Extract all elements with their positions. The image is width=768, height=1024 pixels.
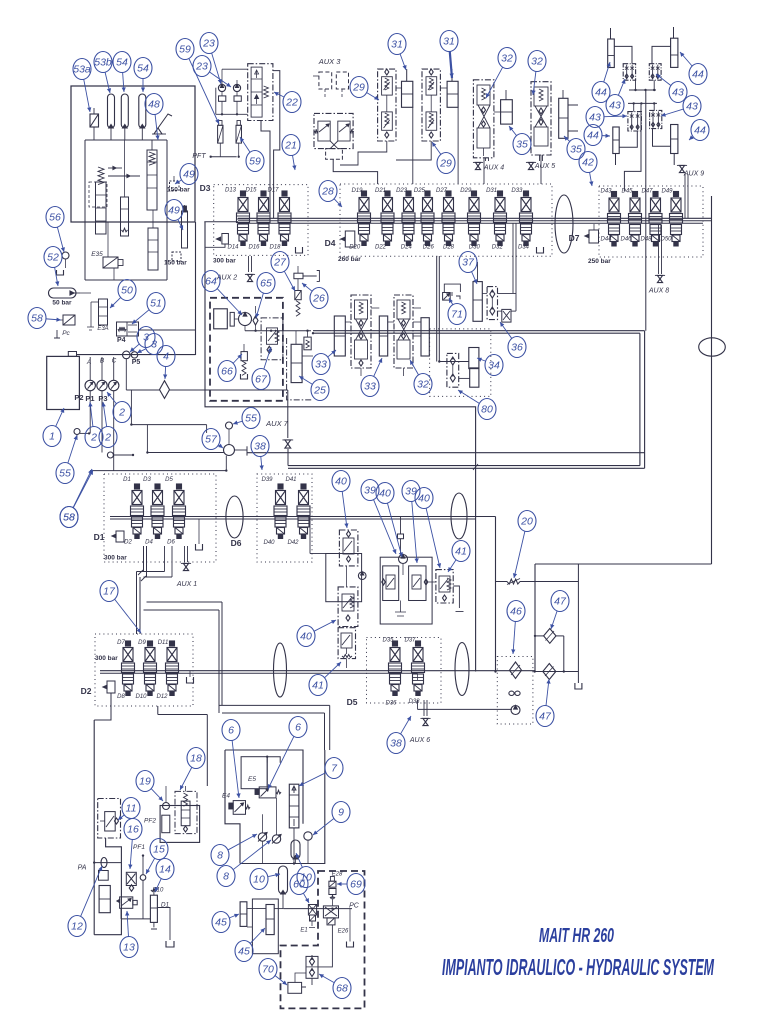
cooler sym 46 bbox=[509, 691, 514, 695]
cylinder PF2 bbox=[162, 815, 170, 833]
svg-text:44: 44 bbox=[587, 130, 599, 142]
svg-text:D27: D27 bbox=[436, 188, 448, 194]
svg-text:44: 44 bbox=[595, 87, 607, 99]
svg-text:D1: D1 bbox=[123, 477, 131, 483]
svg-text:D28: D28 bbox=[443, 245, 455, 251]
hook E45 bbox=[267, 757, 280, 763]
cylinder 35b bbox=[559, 98, 568, 138]
callout 23 bbox=[212, 53, 221, 84]
vert pair D4 to 80 bbox=[436, 256, 438, 362]
module 40 top box bbox=[339, 530, 358, 566]
svg-text:59: 59 bbox=[179, 44, 191, 56]
svg-text:300 bar: 300 bar bbox=[213, 258, 236, 265]
svg-text:AUX 9: AUX 9 bbox=[683, 171, 704, 178]
callout 26 bbox=[302, 283, 312, 291]
rect 70 bbox=[288, 982, 302, 993]
svg-text:6: 6 bbox=[295, 722, 301, 734]
box PF2 frame bbox=[160, 806, 200, 843]
module 41 box bbox=[436, 570, 453, 603]
svg-text:D5: D5 bbox=[347, 697, 358, 707]
callout 27 bbox=[284, 271, 295, 291]
ellipse node r2right bbox=[451, 493, 467, 539]
svg-text:51: 51 bbox=[150, 298, 162, 310]
svg-text:40: 40 bbox=[335, 476, 347, 488]
callout 35 bbox=[564, 136, 570, 141]
svg-text:D44: D44 bbox=[600, 237, 612, 243]
tank reservoir bbox=[47, 356, 80, 409]
svg-text:D32: D32 bbox=[492, 245, 504, 251]
svg-text:D6: D6 bbox=[167, 540, 175, 546]
wires 33 area bbox=[371, 307, 379, 309]
svg-text:D22: D22 bbox=[375, 245, 387, 251]
svg-text:47: 47 bbox=[554, 596, 567, 608]
svg-text:D2: D2 bbox=[81, 686, 92, 696]
manifold wire bbox=[85, 139, 167, 141]
svg-text:40: 40 bbox=[300, 631, 312, 643]
dotted box D2 bbox=[95, 634, 193, 706]
svg-text:53b: 53b bbox=[94, 57, 112, 69]
pilot valve P4 bbox=[117, 322, 139, 336]
callout 44 bbox=[604, 62, 610, 82]
module 33b internals bbox=[397, 300, 410, 319]
wire aux2 pair bbox=[248, 256, 250, 272]
box 11 dashdot bbox=[98, 799, 121, 839]
svg-text:37: 37 bbox=[462, 257, 475, 269]
svg-text:41: 41 bbox=[455, 546, 467, 558]
valve E1 bbox=[308, 905, 316, 916]
svg-text:43: 43 bbox=[609, 100, 621, 112]
svg-text:33: 33 bbox=[315, 359, 327, 371]
relief module 29b lower valve bbox=[426, 112, 437, 130]
wire 22 left drop bbox=[261, 121, 270, 219]
svg-text:D50: D50 bbox=[660, 237, 672, 243]
svg-text:57: 57 bbox=[205, 434, 218, 446]
pump circle 23a bbox=[218, 84, 225, 91]
wire stubs r2 bbox=[164, 546, 166, 572]
valve E5 bbox=[259, 787, 276, 798]
svg-text:49: 49 bbox=[183, 169, 195, 181]
callout 7 bbox=[299, 773, 326, 786]
callout 40 bbox=[387, 503, 402, 557]
ellipse node D7row bbox=[555, 195, 573, 253]
module 40 bottom box bbox=[338, 628, 355, 659]
relief module 29b upper valve bbox=[426, 77, 437, 95]
callout 13 bbox=[127, 911, 128, 937]
solenoid 71 bbox=[443, 293, 451, 301]
valve D25 bbox=[425, 191, 430, 196]
wire return pair v bbox=[221, 602, 223, 705]
tank sym D3 bbox=[296, 247, 303, 253]
gauge 55 small bbox=[74, 429, 80, 435]
svg-text:D14: D14 bbox=[227, 245, 239, 251]
svg-text:D42: D42 bbox=[287, 540, 299, 546]
wire 13 bottom bbox=[121, 918, 150, 920]
cylinder 33a bbox=[334, 316, 345, 356]
svg-text:D23: D23 bbox=[396, 188, 408, 194]
wires 80 bbox=[439, 361, 469, 363]
svg-text:250 bar: 250 bar bbox=[588, 258, 611, 265]
callout 15 bbox=[146, 858, 155, 874]
svg-text:22: 22 bbox=[285, 97, 298, 109]
valve 80 box bbox=[447, 353, 459, 387]
svg-text:41: 41 bbox=[312, 680, 324, 692]
callout 80 bbox=[458, 390, 479, 403]
svg-text:39: 39 bbox=[364, 485, 376, 497]
valve 66 bbox=[241, 352, 247, 361]
valve 43b bbox=[649, 64, 661, 80]
svg-text:D16: D16 bbox=[248, 245, 260, 251]
cylinder 34a bbox=[469, 348, 479, 369]
svg-text:8: 8 bbox=[217, 850, 223, 862]
feed valve D1 bbox=[116, 531, 124, 542]
wire D3 feed bbox=[204, 221, 238, 223]
svg-text:34: 34 bbox=[488, 360, 500, 372]
wire 43 drop right bbox=[645, 90, 647, 331]
module 33a internals bbox=[355, 300, 368, 319]
ellipse PA bbox=[101, 858, 107, 868]
callout 21 bbox=[293, 155, 295, 170]
svg-text:33: 33 bbox=[364, 381, 376, 393]
cylinder 45b bbox=[266, 905, 274, 935]
wire E26 drop bbox=[331, 925, 333, 955]
callout 40 bbox=[314, 620, 336, 631]
filter diamond 47b bbox=[543, 664, 556, 680]
svg-text:D2: D2 bbox=[124, 540, 132, 546]
valve E26 bbox=[323, 906, 338, 918]
svg-text:AUX 8: AUX 8 bbox=[648, 288, 669, 295]
bracket 26 bbox=[303, 271, 319, 282]
filter diamond 46 bbox=[510, 662, 522, 678]
tank sym small bbox=[57, 270, 64, 275]
pump P2 bbox=[89, 357, 91, 380]
svg-text:60: 60 bbox=[293, 879, 305, 891]
svg-text:58: 58 bbox=[63, 512, 75, 524]
callout 17 bbox=[115, 599, 141, 633]
wire return drop bbox=[534, 564, 536, 672]
relief module 29a lower valve bbox=[382, 112, 393, 130]
wire D2 feed drop bbox=[94, 693, 111, 720]
callout 49 bbox=[175, 180, 181, 184]
svg-text:19: 19 bbox=[139, 776, 151, 788]
manifold band row3 bbox=[100, 670, 535, 672]
callout 33 bbox=[374, 358, 382, 376]
valve E3A column bbox=[99, 299, 108, 325]
accumulator 49 narrow bbox=[182, 211, 188, 248]
svg-text:27: 27 bbox=[273, 257, 287, 269]
gauge 15 bbox=[140, 875, 146, 881]
callout 32 bbox=[410, 360, 418, 375]
cylinder 64 bbox=[214, 309, 228, 329]
frame bl bbox=[94, 838, 121, 935]
callout 33 bbox=[328, 350, 336, 357]
wire drop to D2 bbox=[136, 572, 138, 635]
callout 65 bbox=[256, 293, 263, 318]
svg-text:64: 64 bbox=[205, 276, 217, 288]
wire aux5 pair bbox=[539, 155, 541, 161]
callout 60 bbox=[303, 893, 309, 903]
valve 7 column bbox=[289, 784, 299, 828]
callout 53b bbox=[105, 72, 110, 93]
relief module 29a box bbox=[378, 69, 396, 141]
svg-text:D6: D6 bbox=[231, 538, 242, 548]
cylinder 34b bbox=[470, 368, 479, 387]
svg-text:59: 59 bbox=[249, 156, 261, 168]
callout 19 bbox=[151, 789, 163, 801]
valve D37 bbox=[416, 641, 421, 646]
svg-text:67: 67 bbox=[255, 374, 268, 386]
bracket 71 bbox=[444, 284, 460, 299]
box 45 frame bbox=[252, 899, 278, 954]
valve D43 bbox=[612, 192, 617, 197]
callout 54 bbox=[123, 72, 124, 92]
svg-text:D4: D4 bbox=[325, 238, 336, 248]
aux3 bottom dashed box bbox=[326, 149, 343, 160]
wire D5 to filter bbox=[417, 700, 419, 709]
wire return pair h bbox=[147, 601, 223, 603]
svg-text:31: 31 bbox=[391, 39, 403, 51]
svg-text:D15: D15 bbox=[245, 188, 257, 194]
svg-text:260 bar: 260 bar bbox=[338, 256, 361, 263]
solenoid E28 bbox=[329, 881, 336, 887]
callout 2 bbox=[107, 392, 116, 404]
valve D31 bbox=[498, 191, 503, 196]
svg-text:42: 42 bbox=[582, 157, 594, 169]
svg-text:D24: D24 bbox=[401, 245, 413, 251]
callout 3 bbox=[130, 344, 139, 352]
wire aux7 feed drop bbox=[287, 390, 289, 438]
svg-text:80: 80 bbox=[481, 404, 493, 416]
valve block 22 dashdot bbox=[248, 64, 273, 121]
callout 9 bbox=[313, 819, 334, 835]
wire aux1 bbox=[184, 546, 186, 562]
svg-text:10: 10 bbox=[253, 874, 265, 886]
callout 2 bbox=[103, 402, 107, 427]
dashed box 64 bbox=[210, 298, 283, 401]
module 41 internals bbox=[439, 576, 450, 592]
valve D47 bbox=[653, 192, 658, 197]
callout 52 bbox=[55, 267, 58, 286]
svg-text:23: 23 bbox=[202, 38, 215, 50]
aux3 solenoid right bbox=[338, 121, 350, 141]
cylinder 33b bbox=[379, 316, 387, 356]
aux3 valve box dashdot bbox=[314, 113, 353, 148]
module 40 bottom internals bbox=[341, 633, 352, 648]
svg-text:D37: D37 bbox=[404, 638, 416, 644]
junction dots row3 bbox=[494, 670, 496, 672]
svg-text:D35: D35 bbox=[382, 638, 394, 644]
valve Pc 58 bbox=[63, 315, 75, 325]
callout 54 bbox=[142, 79, 144, 93]
callout 39 bbox=[374, 500, 396, 554]
callout 38 bbox=[401, 716, 411, 734]
callout 58 bbox=[46, 319, 61, 320]
module mid inner a bbox=[383, 566, 399, 601]
callout 53a bbox=[84, 79, 90, 112]
dotted box D4 bbox=[340, 184, 552, 256]
cylinder 44d bbox=[671, 125, 678, 154]
wire pump low bbox=[147, 452, 223, 454]
cylinder 31a bbox=[402, 81, 413, 107]
pump P3 bbox=[113, 357, 115, 380]
svg-text:55: 55 bbox=[59, 468, 71, 480]
callout 43 bbox=[618, 79, 625, 95]
callout 20 bbox=[514, 531, 525, 578]
wire pair D1drop bbox=[143, 546, 145, 572]
svg-text:25: 25 bbox=[313, 385, 326, 397]
wire w arrow b bbox=[108, 175, 140, 177]
inner rect E45 bbox=[241, 757, 267, 789]
callout 29 bbox=[367, 93, 379, 100]
cylinder 45a bbox=[240, 902, 247, 927]
wire D2row right end bbox=[417, 673, 419, 680]
crossing ticks bbox=[138, 570, 146, 581]
unloader valve 48 column bbox=[147, 150, 157, 210]
valve D15 bbox=[261, 191, 266, 196]
callout 48 bbox=[155, 114, 158, 140]
gauge 57 bbox=[224, 445, 235, 456]
callout 32 bbox=[486, 67, 503, 98]
svg-text:13: 13 bbox=[123, 942, 135, 954]
svg-text:1: 1 bbox=[49, 431, 55, 443]
svg-text:D4: D4 bbox=[145, 540, 153, 546]
accumulator 54a bbox=[108, 94, 115, 128]
wire return top bbox=[535, 563, 712, 565]
callout 47 bbox=[551, 611, 557, 629]
svg-text:29: 29 bbox=[439, 158, 452, 170]
callout 57 bbox=[219, 445, 223, 448]
power pack enclosure bbox=[71, 86, 195, 222]
pressure switch 53a bbox=[90, 114, 99, 127]
wire right edge extension bbox=[195, 222, 197, 355]
valve 43c bbox=[628, 112, 642, 131]
svg-text:38: 38 bbox=[254, 441, 266, 453]
aux7 band bbox=[288, 465, 640, 467]
svg-text:PFT: PFT bbox=[192, 153, 206, 160]
svg-text:AUX 5: AUX 5 bbox=[534, 163, 555, 170]
wire w arrow a bbox=[108, 167, 122, 169]
valve E4 bbox=[233, 801, 245, 815]
feed valve D7 bbox=[589, 230, 599, 243]
svg-text:14: 14 bbox=[159, 864, 171, 876]
svg-text:35: 35 bbox=[516, 139, 528, 151]
svg-text:300 bar: 300 bar bbox=[104, 555, 127, 562]
tank PC bbox=[347, 942, 354, 948]
svg-text:PA: PA bbox=[78, 865, 87, 872]
callout 18 bbox=[180, 767, 192, 790]
cylinder 35a bbox=[501, 100, 513, 124]
svg-text:D31: D31 bbox=[486, 188, 497, 194]
svg-text:12: 12 bbox=[71, 921, 83, 933]
relief module 29b box bbox=[422, 69, 440, 141]
wire P4 right bbox=[139, 329, 196, 331]
valve 11 bbox=[105, 812, 116, 831]
wire aux8 drop bbox=[658, 225, 660, 274]
svg-text:43: 43 bbox=[686, 101, 698, 113]
callout 31 bbox=[450, 51, 452, 78]
svg-text:44: 44 bbox=[694, 125, 706, 137]
filter diamond 4 bbox=[160, 381, 170, 399]
svg-text:D43: D43 bbox=[600, 189, 612, 195]
svg-text:D33: D33 bbox=[511, 188, 523, 194]
cylinder 31b bbox=[447, 81, 458, 107]
dotted box 80 bbox=[430, 329, 491, 397]
callout 6 bbox=[268, 736, 294, 789]
gauge 9 bbox=[304, 832, 312, 840]
module mid pump bbox=[399, 555, 408, 564]
wire D2 to PF2 bbox=[158, 706, 208, 786]
callout 49 bbox=[178, 220, 183, 230]
svg-text:E26: E26 bbox=[338, 929, 349, 935]
callout 29 bbox=[432, 142, 441, 154]
solenoid 13 bbox=[120, 897, 133, 908]
svg-text:3: 3 bbox=[151, 339, 157, 351]
callout 11 bbox=[118, 815, 124, 820]
svg-text:D3: D3 bbox=[200, 183, 211, 193]
svg-text:P5: P5 bbox=[132, 359, 141, 366]
svg-text:17: 17 bbox=[103, 586, 116, 598]
valve D21 bbox=[385, 191, 390, 196]
svg-text:D46: D46 bbox=[620, 237, 632, 243]
callout 32 bbox=[533, 71, 536, 95]
suction line bbox=[77, 354, 196, 356]
callout 10 bbox=[268, 874, 280, 877]
manifold band top bbox=[238, 217, 712, 219]
svg-text:AUX 1: AUX 1 bbox=[176, 581, 197, 588]
callout 16 bbox=[130, 839, 132, 869]
valve 43a bbox=[623, 64, 635, 80]
svg-text:E10: E10 bbox=[153, 888, 164, 894]
svg-text:11: 11 bbox=[126, 803, 137, 815]
callout 22 bbox=[274, 92, 284, 97]
valve D11r3 bbox=[170, 641, 175, 646]
dashdot box 67 bbox=[261, 318, 283, 360]
accumulator 10a bbox=[291, 840, 300, 859]
wire 20 vert bbox=[577, 564, 579, 582]
svg-text:D9: D9 bbox=[138, 640, 146, 646]
valve D19 bbox=[362, 191, 367, 196]
callout 3 bbox=[137, 349, 146, 353]
dotted box D5 bbox=[367, 638, 442, 704]
check pair 68 bbox=[306, 956, 318, 978]
module 36 internals bbox=[490, 290, 495, 298]
feed valve D3 bbox=[222, 234, 229, 245]
valve D35 bbox=[393, 641, 398, 646]
wire PA bbox=[94, 862, 121, 864]
svg-text:28: 28 bbox=[321, 186, 334, 198]
svg-text:D7: D7 bbox=[569, 233, 580, 243]
check 65 bbox=[253, 316, 258, 325]
callout 59 bbox=[240, 137, 250, 152]
callout 70 bbox=[275, 976, 287, 985]
gauge box 23b bbox=[234, 96, 241, 101]
module 40 top internals bbox=[343, 538, 354, 554]
svg-text:56: 56 bbox=[49, 212, 61, 224]
svg-text:E3A: E3A bbox=[97, 326, 108, 332]
svg-text:D7: D7 bbox=[117, 640, 125, 646]
callout 44 bbox=[689, 137, 693, 140]
module 40 lower internals bbox=[342, 594, 354, 611]
svg-text:D12: D12 bbox=[156, 694, 168, 700]
pump P1 bbox=[101, 357, 103, 380]
svg-text:E1: E1 bbox=[300, 928, 307, 934]
filter diamond 47a bbox=[544, 629, 556, 644]
module 32b internals bbox=[534, 87, 548, 106]
tank sym D2 bbox=[187, 677, 194, 683]
wire return pair v2 bbox=[329, 705, 331, 750]
svg-text:69: 69 bbox=[350, 879, 362, 891]
svg-text:15: 15 bbox=[153, 844, 165, 856]
module 32a internals bbox=[477, 85, 490, 105]
